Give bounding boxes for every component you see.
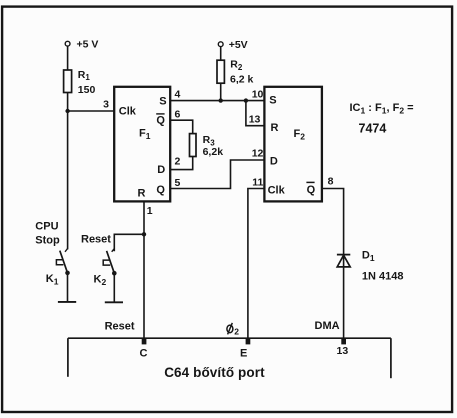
svg-text:150: 150: [78, 84, 96, 96]
+5V terminal left: [65, 39, 98, 51]
wire K2 to ground: [113, 273, 115, 302]
svg-text:10: 10: [252, 89, 264, 101]
wire R3 to F1 D pin 2: [170, 157, 193, 170]
svg-text:11: 11: [252, 177, 263, 189]
svg-text:Stop: Stop: [35, 234, 60, 246]
wire +5V to R2: [220, 47, 222, 61]
diode D1: [337, 250, 404, 283]
+5V terminal right: [218, 39, 247, 51]
resistor R3: [190, 134, 224, 159]
CPU Stop label: [35, 221, 60, 247]
wire K1 to ground: [67, 273, 69, 302]
svg-text:4: 4: [175, 89, 181, 101]
svg-text:S: S: [159, 96, 166, 108]
svg-text:3: 3: [103, 99, 109, 111]
flip-flop F2: [264, 87, 322, 202]
svg-text:+5 V: +5 V: [77, 39, 99, 51]
terminal E: [246, 339, 251, 344]
wire S line F1 pin4 to F2 pin10: [170, 100, 264, 102]
svg-text:C: C: [140, 348, 148, 360]
wire to F1 Clk pin 3: [68, 110, 115, 112]
wire +5V to R1: [67, 46, 69, 70]
svg-text:6,2 k: 6,2 k: [230, 74, 254, 86]
ground K1: [58, 301, 76, 303]
wire F1 Q-bar pin6 to R3: [170, 120, 193, 133]
svg-text:D: D: [157, 164, 165, 176]
svg-text:Q: Q: [307, 184, 316, 196]
svg-text:Clk: Clk: [119, 106, 137, 118]
svg-text:Q: Q: [156, 184, 165, 196]
svg-text:C64 bővítő port: C64 bővítő port: [164, 365, 265, 380]
node junction R1/Clk: [65, 109, 69, 113]
svg-text:D: D: [270, 156, 278, 168]
IC1 annotation: [350, 102, 414, 135]
svg-text:13: 13: [337, 345, 349, 357]
svg-text:CPU: CPU: [35, 221, 58, 233]
svg-text:12: 12: [252, 147, 264, 159]
svg-text:IC1 : F1, F2 =: IC1 : F1, F2 =: [350, 102, 414, 116]
phi2 label: [227, 323, 239, 337]
resistor R1: [64, 69, 96, 96]
wire F1 R pin1 down to port C: [143, 201, 145, 338]
svg-text:Q: Q: [156, 114, 165, 126]
svg-text:6,2k: 6,2k: [203, 146, 224, 158]
ground K2: [105, 301, 123, 303]
switch K1: [46, 249, 70, 287]
terminal 13: [341, 339, 346, 344]
svg-text:Clk: Clk: [268, 184, 286, 196]
node junction reset line: [142, 232, 146, 236]
wire K2 to reset line: [114, 234, 144, 251]
svg-text:8: 8: [328, 175, 334, 187]
flip-flop F1: [114, 87, 170, 202]
wire F2 Q-bar pin8 to diode: [322, 189, 344, 339]
wire R2 to S-line: [220, 83, 222, 100]
wire F1 Q pin5 to F2 D pin12: [170, 160, 264, 189]
svg-text:Reset: Reset: [81, 234, 111, 246]
svg-text:S: S: [269, 94, 276, 106]
svg-text:5: 5: [175, 177, 181, 189]
wire R1 down to K1: [67, 93, 69, 250]
svg-text:7474: 7474: [359, 121, 387, 135]
svg-text:R: R: [138, 187, 146, 199]
svg-text:E: E: [240, 348, 247, 360]
wire F2 Clk pin11 down to port E: [248, 189, 265, 339]
node junction 13-branch: [244, 98, 248, 102]
svg-text:DMA: DMA: [315, 320, 340, 332]
svg-text:2: 2: [234, 327, 239, 337]
svg-text:1N 4148: 1N 4148: [362, 271, 404, 283]
svg-text:Reset: Reset: [105, 321, 135, 333]
svg-text:+5V: +5V: [229, 39, 248, 51]
terminal C: [142, 339, 147, 344]
switch K2: [94, 249, 117, 288]
resistor R2: [217, 58, 254, 85]
svg-text:2: 2: [175, 155, 181, 167]
C64 expansion port connector: [68, 338, 391, 378]
wire branch to F2 R pin 13: [246, 101, 265, 126]
svg-text:6: 6: [175, 109, 181, 121]
svg-text:R: R: [271, 122, 279, 134]
svg-text:13: 13: [249, 114, 261, 126]
svg-text:1: 1: [147, 205, 153, 217]
node junction R2/S-line: [219, 98, 223, 102]
